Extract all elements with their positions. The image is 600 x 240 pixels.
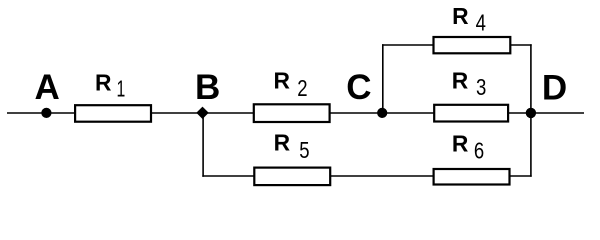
svg-text:R: R — [452, 131, 468, 157]
svg-text:B: B — [195, 68, 220, 107]
svg-text:R: R — [452, 68, 468, 94]
svg-text:D: D — [542, 68, 567, 107]
svg-text:1: 1 — [117, 76, 126, 102]
svg-text:3: 3 — [476, 75, 486, 100]
svg-text:2: 2 — [297, 76, 307, 101]
svg-text:4: 4 — [476, 11, 487, 36]
svg-text:C: C — [346, 68, 371, 107]
svg-text:5: 5 — [299, 138, 309, 163]
svg-text:6: 6 — [474, 138, 484, 163]
svg-text:R: R — [273, 68, 289, 94]
svg-text:R: R — [274, 130, 290, 156]
svg-text:A: A — [34, 68, 59, 107]
svg-text:R: R — [452, 3, 468, 29]
svg-text:R: R — [95, 70, 111, 96]
